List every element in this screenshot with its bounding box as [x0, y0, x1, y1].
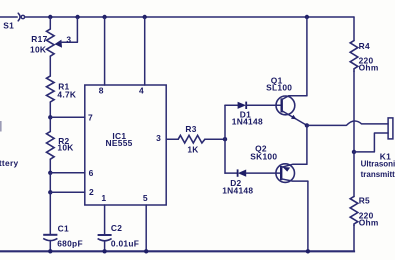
node dot bottom rail Q2 collector [306, 249, 310, 253]
svg-text:SK100: SK100 [250, 151, 277, 161]
svg-text:S1: S1 [3, 20, 14, 30]
wire down to C1 [49, 192, 51, 234]
wire Q2 emitter up to junction [306, 125, 308, 164]
resistor R1 4.7K [47, 76, 77, 102]
wire R1 to node [49, 102, 51, 117]
svg-text:2: 2 [89, 187, 94, 197]
svg-text:8: 8 [99, 86, 104, 96]
wire Q2 collector to bottom rail [307, 181, 309, 251]
resistor R3 1K [178, 124, 205, 154]
svg-text:SL100: SL100 [266, 82, 292, 92]
node dot R1/R2/pin7 [48, 115, 52, 119]
svg-text:1: 1 [101, 193, 106, 203]
svg-text:C1: C1 [58, 223, 69, 233]
svg-text:1N4148: 1N4148 [232, 117, 263, 127]
svg-text:Ohm: Ohm [359, 63, 379, 73]
resistor R2 10K [47, 132, 74, 160]
node dot top rail at pin 8 [102, 15, 106, 19]
svg-text:R3: R3 [185, 124, 196, 134]
wire R2 to pin6 node [49, 159, 51, 173]
diode D1 1N4148 [225, 102, 281, 127]
resistor R4 220 Ohm [350, 17, 378, 152]
transducer K1 ultrasonic transmitter [354, 118, 395, 179]
pin 8 wire [99, 17, 105, 96]
svg-text:4.7K: 4.7K [57, 90, 76, 100]
wire pin6 node to pin2 node [49, 173, 51, 193]
wire node to R2 [49, 117, 51, 131]
svg-text:10K: 10K [30, 44, 46, 54]
capacitor C1 680pF [43, 223, 83, 251]
svg-text:ttery: ttery [0, 158, 18, 168]
svg-text:R4: R4 [359, 41, 370, 51]
wire pin 2 [50, 187, 94, 197]
node dot pin 2 [48, 190, 52, 194]
svg-text:R5: R5 [359, 196, 370, 206]
resistor R5 220 Ohm [350, 152, 378, 251]
pin 3 wire [156, 133, 178, 143]
node dot K1 branch [352, 150, 356, 154]
svg-text:4: 4 [139, 86, 144, 96]
svg-text:5: 5 [143, 193, 148, 203]
node dot emitter junction [305, 123, 309, 127]
svg-text:transmitter: transmitter [361, 170, 395, 179]
switch S1 [3, 13, 24, 30]
node dot bottom rail pin 5 [144, 249, 148, 253]
node dot top rail at wiper return [75, 15, 79, 19]
pin 4 wire [139, 17, 145, 96]
node dot top rail at pin 4 [143, 15, 147, 19]
battery lead remnant at left edge [0, 121, 2, 132]
svg-text:3: 3 [66, 34, 71, 44]
battery label (cut off) [0, 158, 18, 168]
svg-text:680pF: 680pF [57, 238, 83, 248]
node dot R3/diodes [223, 137, 227, 141]
svg-text:C2: C2 [111, 223, 122, 233]
wire Q1 collector to top rail [306, 17, 308, 96]
svg-text:Ohm: Ohm [359, 218, 379, 228]
svg-text:1K: 1K [187, 144, 198, 154]
pin 1 wire [101, 193, 106, 235]
svg-text:1N4148: 1N4148 [222, 185, 253, 195]
wire top rail left segment [0, 16, 17, 18]
wire bottom rail [0, 249, 354, 252]
node dot top rail at R17 [48, 15, 52, 19]
node dot top rail at Q1 collector [305, 15, 309, 19]
transistor Q1 SL100 [266, 75, 307, 125]
svg-text:3: 3 [156, 133, 161, 143]
wire R3 to node [205, 138, 225, 140]
wire pin 7 [50, 112, 93, 122]
svg-text:7: 7 [88, 112, 93, 122]
IC IC1 NE555 [85, 85, 166, 205]
wire output with hop to K1 [307, 121, 388, 125]
diode D2 1N4148 [222, 169, 280, 195]
wire pin 6 [50, 168, 93, 178]
node dot bottom rail C1 [48, 249, 52, 253]
svg-text:6: 6 [89, 168, 94, 178]
wire vertical diode branch [224, 105, 226, 173]
wire R17 to R1 [49, 56, 51, 76]
svg-text:R17: R17 [31, 34, 47, 44]
potentiometer R17 10K [30, 17, 77, 56]
svg-text:NE555: NE555 [106, 138, 133, 148]
wire top rail main segment [25, 16, 354, 18]
pin 5 wire [143, 193, 148, 251]
svg-text:Ultrasonic: Ultrasonic [361, 159, 395, 168]
transistor Q2 SK100 [250, 144, 308, 183]
svg-text:10K: 10K [57, 142, 73, 152]
node dot pin 6 [48, 171, 52, 175]
capacitor C2 0.01uF [98, 223, 140, 251]
node dot bottom rail C2 [102, 249, 106, 253]
svg-text:0.01uF: 0.01uF [111, 238, 139, 248]
